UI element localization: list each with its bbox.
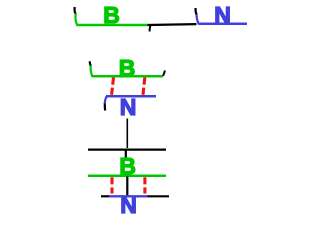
red dashed contact lower-right xyxy=(143,177,146,193)
wire: vertical bond from upper line to B3 xyxy=(125,150,127,157)
svg-text:N: N xyxy=(214,2,231,28)
wire: green bond line through B2 xyxy=(92,75,163,78)
wire: blue bond line through N2 xyxy=(106,95,156,98)
red dashed contact lower-left xyxy=(110,177,113,193)
wire: left end tick (green lower half) xyxy=(75,14,77,26)
wire: left end tick of B chain (black upper half) xyxy=(90,61,91,66)
svg-text:N: N xyxy=(120,192,137,216)
wire: lower chain black segment left xyxy=(101,195,109,197)
wire: left end down tick of N chain (blue upper half) xyxy=(105,97,107,105)
red dashed contact right xyxy=(143,78,145,96)
wire: small black up nub at right end of green line xyxy=(163,71,165,76)
wire: green bond line left of B1 xyxy=(77,24,148,27)
svg-text:B: B xyxy=(119,55,136,81)
wire: up tick before N1 (blue lower half) xyxy=(197,15,199,25)
wire: up tick before N1 (black upper half) xyxy=(195,8,196,15)
red dashed contact left xyxy=(112,78,114,96)
svg-text:N: N xyxy=(120,94,137,120)
wire: vertical link from N2 down to bottom sheet xyxy=(126,119,128,149)
wire: blue bond line through N1 xyxy=(199,23,248,26)
wire: lower chain blue segment xyxy=(109,195,148,197)
wire: left end tick of B chain (green lower half) xyxy=(91,66,93,77)
wire: left end down tick of N chain (black lower half) xyxy=(104,104,107,111)
svg-text:B: B xyxy=(103,2,120,28)
wire: lower chain black segment right xyxy=(148,195,170,197)
wire: black chain segment between B1 and N1 xyxy=(148,23,197,26)
wire: upper black chain line xyxy=(88,149,166,151)
wire: vertical bond from B3 down to N3 xyxy=(126,177,128,198)
wire: green bond line through B3 xyxy=(88,175,166,178)
wire: small black down tick mid-chain xyxy=(149,26,152,32)
wire: left end tick (black upper half) xyxy=(74,7,75,14)
